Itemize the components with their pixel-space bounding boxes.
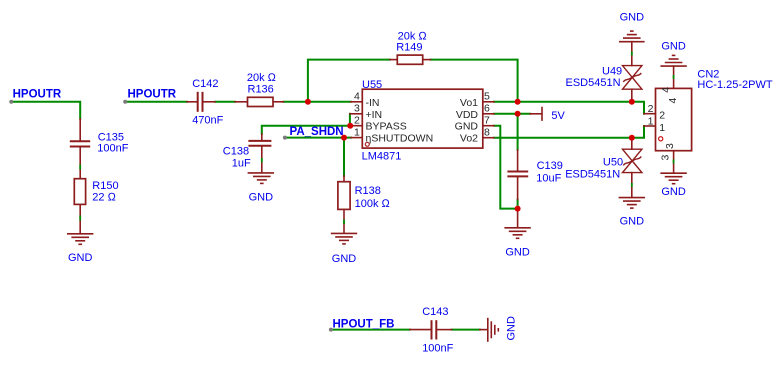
svg-text:C135: C135 [98, 131, 124, 143]
svg-text:5: 5 [484, 91, 490, 103]
svg-text:7: 7 [484, 114, 490, 126]
svg-text:4: 4 [667, 98, 679, 104]
svg-text:10uF: 10uF [536, 172, 561, 184]
svg-text:U55: U55 [362, 79, 382, 91]
svg-text:470nF: 470nF [192, 115, 223, 127]
svg-text:2: 2 [354, 114, 360, 126]
svg-text:8: 8 [484, 126, 490, 138]
svg-text:2: 2 [648, 103, 654, 115]
svg-text:1: 1 [354, 126, 360, 138]
svg-text:100k Ω: 100k Ω [355, 198, 391, 210]
svg-text:3: 3 [660, 155, 672, 161]
svg-text:-IN: -IN [366, 97, 380, 109]
svg-text:ηSHUTDOWN: ηSHUTDOWN [366, 133, 434, 145]
svg-text:20k Ω: 20k Ω [247, 72, 277, 84]
svg-text:R150: R150 [92, 180, 118, 192]
svg-text:GND: GND [68, 252, 93, 264]
svg-text:ESD5451N: ESD5451N [565, 168, 620, 180]
svg-text:4: 4 [354, 91, 360, 103]
svg-text:ESD5451N: ESD5451N [566, 77, 621, 89]
svg-text:U50: U50 [603, 156, 623, 168]
svg-text:PA_SHDN: PA_SHDN [290, 126, 344, 138]
svg-text:100nF: 100nF [97, 143, 128, 155]
svg-text:GND: GND [455, 121, 479, 133]
svg-text:GND: GND [620, 12, 645, 24]
svg-text:1: 1 [648, 116, 654, 128]
svg-text:GND: GND [661, 186, 686, 198]
svg-text:GND: GND [661, 41, 686, 53]
svg-text:100nF: 100nF [422, 343, 453, 355]
svg-text:22 Ω: 22 Ω [92, 192, 116, 204]
svg-text:HPOUTR: HPOUTR [128, 89, 177, 101]
svg-text:1: 1 [659, 122, 665, 134]
svg-text:3: 3 [354, 103, 360, 115]
svg-text:R149: R149 [396, 42, 422, 54]
svg-text:C139: C139 [537, 160, 563, 172]
svg-text:1uF: 1uF [232, 158, 251, 170]
svg-text:LM4871: LM4871 [362, 150, 402, 162]
svg-text:GND: GND [505, 247, 530, 259]
svg-text:BYPASS: BYPASS [366, 121, 407, 133]
svg-text:HPOUTR: HPOUTR [13, 89, 62, 101]
svg-text:GND: GND [620, 216, 645, 228]
svg-text:3: 3 [664, 143, 676, 149]
svg-text:5V: 5V [551, 110, 565, 122]
svg-text:C143: C143 [422, 306, 448, 318]
svg-text:4: 4 [660, 87, 672, 93]
svg-text:R136: R136 [248, 84, 274, 96]
svg-text:GND: GND [249, 192, 274, 204]
svg-text:Vo1: Vo1 [460, 97, 478, 109]
svg-text:2: 2 [659, 110, 665, 122]
svg-text:6: 6 [484, 103, 490, 115]
svg-text:C138: C138 [223, 145, 249, 157]
svg-text:GND: GND [332, 253, 357, 265]
svg-text:R138: R138 [355, 185, 381, 197]
svg-text:GND: GND [506, 316, 518, 341]
svg-text:HC-1.25-2PWT: HC-1.25-2PWT [697, 79, 772, 91]
svg-text:VDD: VDD [456, 109, 479, 121]
svg-text:Vo2: Vo2 [460, 133, 478, 145]
svg-text:HPOUT_FB: HPOUT_FB [333, 319, 395, 331]
svg-text:U49: U49 [602, 65, 622, 77]
svg-text:+IN: +IN [366, 109, 383, 121]
svg-text:C142: C142 [192, 78, 218, 90]
